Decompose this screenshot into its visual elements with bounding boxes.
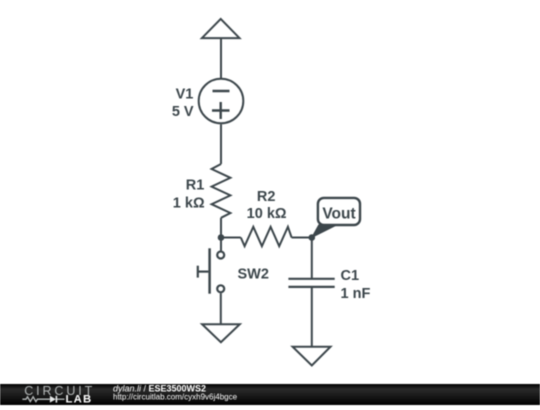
ground (below SW2) [202,324,240,342]
power flag VCC (top triangle) [202,19,240,38]
CircuitLab logo schematic (resistor + diode) [22,397,64,402]
resistor R1 [212,164,231,218]
svg-text:1 kΩ: 1 kΩ [173,195,205,211]
svg-text:R2: R2 [257,189,276,205]
svg-text:C1: C1 [341,268,360,284]
svg-text:1 nF: 1 nF [341,286,371,302]
wire V1 to R1 [220,124,222,164]
svg-text:5 V: 5 V [172,104,194,120]
capacitor C1 [288,279,334,287]
resistor R2 [241,227,292,246]
svg-text:R1: R1 [186,178,205,194]
voltage source V1 [199,79,244,124]
svg-text:10 kΩ: 10 kΩ [247,206,287,222]
wire node to R2 [221,237,241,239]
svg-text:SW2: SW2 [238,266,269,282]
wire node to switch [220,238,222,251]
junction dot at Vout node [309,234,316,241]
junction dot at R1/R2/SW2 node [218,234,225,241]
wire VCC to V1 [220,38,222,78]
node flag Vout box [318,198,360,225]
V1 plus sign [212,102,230,119]
svg-text:Vout: Vout [322,206,355,223]
wire C1 to ground [311,287,313,347]
svg-text:LAB: LAB [66,394,93,405]
CircuitLab logo diode arrow [50,396,56,403]
wire node Vout to C1 [311,238,313,279]
node Vout pointer [312,225,337,238]
V1 minus sign [213,90,230,92]
wire R2 to node Vout [292,237,312,239]
ground (below C1) [293,347,331,366]
svg-text:http://circuitlab.com/cyxh9v6j: http://circuitlab.com/cyxh9v6j4bgce [113,392,238,401]
wire switch to ground [220,293,222,324]
footer bar [0,384,540,405]
svg-text:V1: V1 [176,87,194,103]
wire R1 to node [220,218,222,238]
switch SW2 pushbutton [198,248,224,293]
